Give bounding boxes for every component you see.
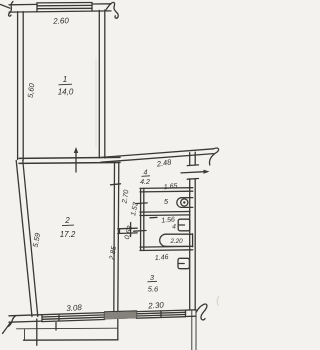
balcony left corner tick bbox=[24, 330, 26, 340]
wall room 2 / hall-kitchen bbox=[114, 163, 119, 317]
balcony left edge bbox=[36, 319, 38, 345]
wall left of room 2 bbox=[16, 161, 38, 317]
wall left of wc and bath bbox=[141, 188, 144, 250]
solid pier between windows bbox=[105, 311, 137, 319]
bathtub bbox=[166, 234, 193, 247]
svg-text:14,0: 14,0 bbox=[58, 88, 74, 97]
wall below kitchen continuing bbox=[192, 310, 196, 350]
wash basin in wc 5 bbox=[177, 198, 193, 208]
hall door cross tick bbox=[130, 223, 132, 237]
paper background bbox=[0, 0, 224, 350]
break hook hall right end bbox=[209, 148, 218, 165]
balcony rail line bbox=[17, 327, 118, 330]
vent box upper bbox=[178, 219, 190, 231]
entrance door gap ticks bbox=[187, 165, 198, 179]
arrowhead entrance bbox=[204, 170, 210, 174]
svg-text:3.08: 3.08 bbox=[66, 303, 83, 313]
door tick bath 4 bbox=[134, 230, 146, 233]
svg-text:4: 4 bbox=[144, 170, 148, 177]
window W1 2.60 on top wall bbox=[37, 3, 92, 9]
break hook bottom-right bbox=[196, 304, 207, 320]
svg-text:2: 2 bbox=[64, 216, 70, 225]
balcony door tick bbox=[55, 323, 57, 331]
svg-text:1: 1 bbox=[63, 75, 67, 84]
wall bottom exterior segments bbox=[9, 315, 42, 323]
wall wc 5 / bath 4 bbox=[140, 212, 190, 216]
wall divider rooms 1/2 bbox=[19, 157, 120, 163]
entrance arrow bbox=[181, 172, 205, 173]
svg-text:2.30: 2.30 bbox=[147, 300, 165, 310]
svg-text:4: 4 bbox=[172, 224, 176, 231]
svg-text:2.60: 2.60 bbox=[52, 16, 70, 26]
balcony slab line bbox=[24, 339, 119, 341]
wall left of room 1 bbox=[18, 12, 24, 161]
break hook top-right bbox=[106, 2, 118, 18]
basin drain dot bbox=[183, 201, 185, 203]
break squiggle bottom-left bbox=[8, 316, 16, 327]
window W3 2.30 bbox=[137, 310, 186, 318]
faint right-edge mark bbox=[217, 296, 219, 306]
wall right exterior bbox=[190, 152, 196, 310]
door tick wc 5 bbox=[136, 202, 147, 205]
svg-text:5.6: 5.6 bbox=[148, 285, 159, 294]
svg-text:1.46: 1.46 bbox=[155, 254, 169, 262]
faint scan streak bbox=[95, 58, 97, 148]
arrowhead door rooms 1/2 bbox=[74, 147, 78, 153]
balcony right edge bbox=[117, 318, 119, 340]
door arrow rooms 1/2 bbox=[75, 151, 77, 172]
wall top of hall 4 bbox=[101, 149, 214, 162]
window W2 3.08 bbox=[42, 313, 105, 322]
svg-text:2.20: 2.20 bbox=[169, 238, 183, 245]
wall top of wc 5 bbox=[140, 188, 193, 192]
dimension tick 2.70 bbox=[111, 184, 121, 185]
svg-text:17.2: 17.2 bbox=[60, 230, 76, 239]
wall bath 4 bottom bbox=[140, 246, 193, 250]
wall right of room 1 bbox=[99, 10, 105, 158]
svg-text:5,60: 5,60 bbox=[26, 82, 37, 98]
pier wall outline bbox=[105, 311, 137, 319]
wall top exterior (room 1) bbox=[9, 4, 111, 5]
svg-text:4.2: 4.2 bbox=[140, 179, 150, 186]
svg-text:1.65: 1.65 bbox=[164, 183, 178, 191]
dimension tick 1.56 bbox=[150, 216, 157, 218]
break squiggle top-left bbox=[9, 2, 13, 17]
hall door 0.68 leaf bbox=[118, 228, 137, 233]
vent box lower bbox=[178, 258, 189, 268]
